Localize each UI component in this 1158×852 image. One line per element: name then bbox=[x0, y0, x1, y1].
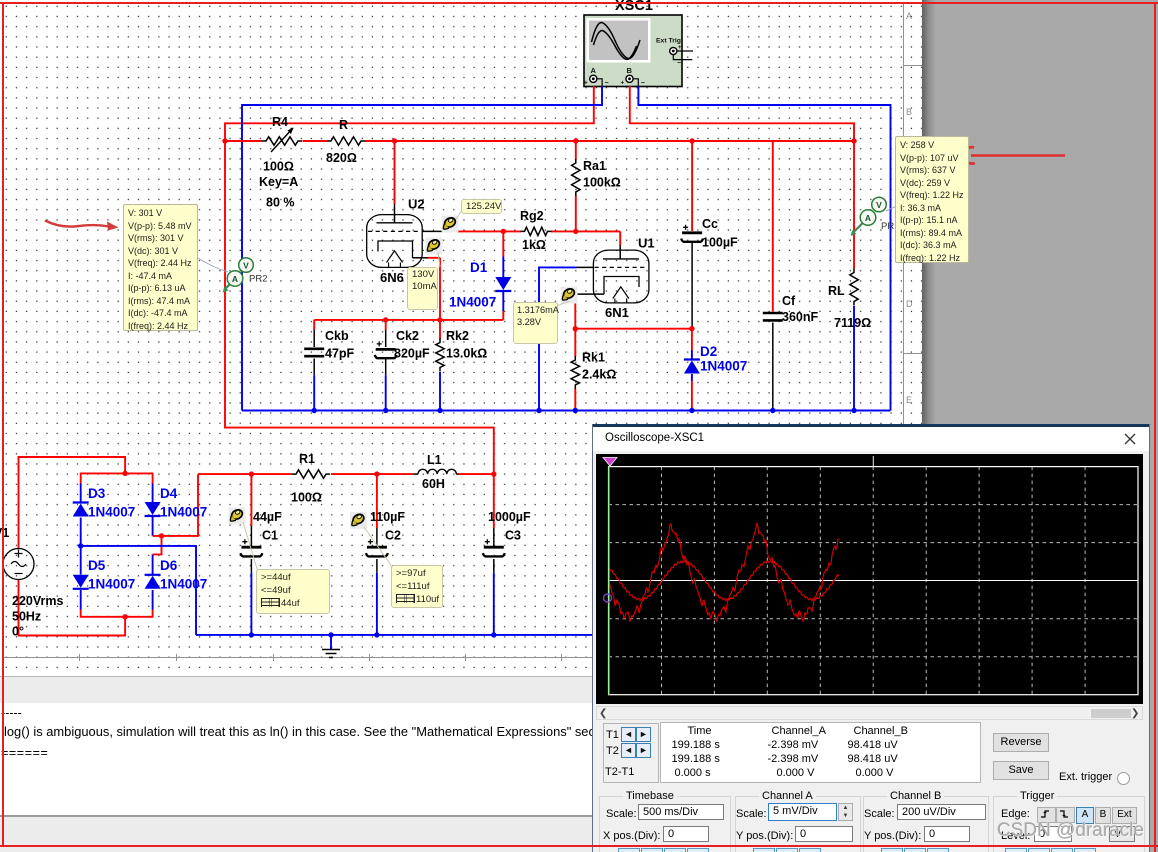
probe pin at U2 grid bbox=[442, 216, 459, 233]
resistor Ra1 100k bbox=[572, 159, 621, 196]
svg-text:1N4007: 1N4007 bbox=[160, 505, 207, 520]
leader line C2 box bbox=[364, 527, 393, 568]
wire: cathode bus y320 bbox=[314, 319, 503, 321]
tooltip U1 cathode 1.3176mA 3.28V bbox=[513, 302, 558, 344]
status bar grey bbox=[0, 815, 592, 852]
wire: D1 branch bbox=[502, 231, 504, 256]
border zone tick D/E bbox=[903, 353, 922, 354]
svg-text:L1: L1 bbox=[427, 453, 442, 467]
svg-text:47pF: 47pF bbox=[325, 347, 355, 361]
probe PR1 bbox=[851, 197, 900, 236]
capacitor Cf 360nF bbox=[763, 294, 819, 324]
inductor L1 60H bbox=[414, 453, 458, 491]
resistor Rk1 2.4k bbox=[571, 351, 616, 390]
svg-text:D6: D6 bbox=[160, 558, 178, 573]
svg-text:2.4kΩ: 2.4kΩ bbox=[582, 368, 616, 382]
leader line PR1 tooltip bbox=[886, 206, 897, 211]
zone letter E bbox=[906, 395, 912, 405]
svg-text:1N4007: 1N4007 bbox=[449, 295, 496, 310]
log panel white bbox=[0, 703, 592, 815]
wire: Ra1 leads bbox=[575, 141, 577, 231]
T1 T2 cursor controls bbox=[603, 723, 659, 783]
svg-text:1N4007: 1N4007 bbox=[88, 577, 135, 592]
probe pin at U1 cathode bbox=[561, 287, 578, 304]
diode D6 1N4007 bbox=[145, 558, 208, 592]
wire: RL bottom lead bbox=[853, 306, 855, 411]
svg-text:D4: D4 bbox=[160, 486, 178, 501]
svg-text:220Vrms: 220Vrms bbox=[12, 594, 63, 608]
svg-text:820Ω: 820Ω bbox=[326, 151, 357, 165]
svg-text:V: V bbox=[876, 200, 882, 210]
channel B controls bbox=[864, 808, 895, 820]
svg-text:Key=A: Key=A bbox=[259, 175, 298, 189]
red annotation frame top bbox=[0, 2, 1158, 4]
wire: D6 leads bbox=[152, 554, 154, 609]
capacitor Ckb 47pF bbox=[304, 320, 354, 411]
svg-text:Cf: Cf bbox=[782, 294, 796, 308]
wire: PSU V1 feed top bbox=[19, 457, 126, 549]
leader line C1 box bbox=[243, 522, 258, 572]
leader line 125.24V tooltip bbox=[456, 209, 463, 219]
wire: U2 plate feed bbox=[394, 141, 396, 204]
svg-text:U2: U2 bbox=[408, 197, 425, 212]
junction dots blue bbox=[78, 408, 857, 638]
svg-text:−: − bbox=[641, 80, 645, 87]
log equals bbox=[1, 746, 401, 760]
bottom grey scrollbar band bbox=[0, 676, 592, 704]
diode D1 1N4007 bbox=[449, 260, 511, 310]
wire: Cf leads bbox=[772, 141, 774, 312]
svg-text:Cc: Cc bbox=[702, 217, 718, 231]
svg-text:Rk2: Rk2 bbox=[446, 329, 469, 343]
resistor Rg2 1k bbox=[520, 209, 551, 252]
wire: cathode bus y328.7 bbox=[575, 328, 692, 330]
wire: scope A+ down-left-down to PSU rail loop bbox=[225, 86, 594, 474]
diode D2 1N4007 bbox=[684, 344, 747, 374]
capacitor Cc 100uF bbox=[681, 217, 738, 250]
svg-text:Ckb: Ckb bbox=[325, 329, 349, 343]
wire: PSU output rail y474 bbox=[198, 473, 494, 475]
CSDN watermark bbox=[997, 820, 1144, 842]
left green axis line bbox=[608, 467, 610, 695]
resistor R4 (potentiometer) bbox=[259, 115, 302, 210]
channel B trace bbox=[609, 561, 839, 601]
zone letter A bbox=[906, 11, 912, 21]
svg-text:D3: D3 bbox=[88, 486, 106, 501]
svg-text:50Hz: 50Hz bbox=[12, 610, 41, 624]
wire: scope B- blue stub to right frame bbox=[638, 86, 890, 411]
svg-text:1N4007: 1N4007 bbox=[88, 505, 135, 520]
Save button bbox=[993, 761, 1049, 780]
timebase controls bbox=[606, 808, 637, 820]
wire: bridge mid-left blue to bus bbox=[81, 546, 196, 635]
red annotation frame bottom bbox=[0, 845, 1158, 847]
wire: bridge top rail bbox=[81, 473, 153, 483]
wire: bottom blue bus of amplifier bbox=[242, 410, 891, 412]
wire: C3 leads bbox=[493, 474, 495, 528]
tooltip C2 range bbox=[391, 565, 443, 608]
red annotation frame right bbox=[1154, 2, 1156, 852]
wire: D5 leads bbox=[80, 546, 82, 610]
log message bbox=[4, 724, 754, 740]
oscilloscope window XSC1 dialog bbox=[592, 424, 1150, 852]
svg-text:Ra1: Ra1 bbox=[583, 159, 606, 173]
svg-text:1N4007: 1N4007 bbox=[160, 577, 207, 592]
svg-text:R1: R1 bbox=[299, 452, 315, 466]
zone letter B bbox=[906, 107, 912, 117]
svg-text:U1: U1 bbox=[638, 236, 655, 251]
wire: U2 grid wire to Rg2 and U1 bbox=[422, 230, 442, 232]
svg-text:0°: 0° bbox=[12, 625, 24, 639]
svg-text:+: + bbox=[678, 45, 682, 51]
svg-text:100µF: 100µF bbox=[702, 236, 738, 250]
svg-text:−: − bbox=[605, 80, 609, 87]
svg-text:7119Ω: 7119Ω bbox=[834, 316, 871, 330]
wire: top red bus y141 bbox=[225, 140, 854, 142]
border zone tick A/B bbox=[903, 65, 922, 66]
svg-text:360nF: 360nF bbox=[782, 310, 818, 324]
svg-text:6N6: 6N6 bbox=[380, 270, 404, 285]
wire: Cc leads bbox=[691, 141, 693, 231]
cursor circle marker bbox=[604, 594, 612, 602]
svg-text:A: A bbox=[591, 66, 597, 75]
svg-text:−: − bbox=[677, 60, 681, 67]
log dashes bbox=[1, 706, 401, 720]
svg-text:D1: D1 bbox=[470, 260, 488, 275]
capacitor C2 110uF bbox=[366, 510, 405, 556]
capacitor C3 1000uF bbox=[483, 510, 531, 556]
wire: U1 cathode bbox=[578, 293, 604, 295]
scope grid bbox=[609, 467, 1139, 695]
svg-text:+: + bbox=[621, 80, 625, 87]
svg-text:D5: D5 bbox=[88, 558, 106, 573]
svg-text:D2: D2 bbox=[700, 344, 717, 359]
svg-text:R: R bbox=[339, 118, 348, 132]
svg-text:100Ω: 100Ω bbox=[291, 491, 322, 505]
svg-text:V: V bbox=[243, 260, 249, 270]
svg-text:PR2: PR2 bbox=[249, 274, 267, 285]
svg-text:Ext Trig: Ext Trig bbox=[656, 38, 681, 45]
cursor 1 marker bbox=[603, 458, 617, 467]
Reverse button bbox=[993, 733, 1049, 752]
tooltip 125.24V bbox=[461, 199, 502, 214]
tooltip PR2 readout bbox=[123, 204, 198, 331]
svg-text:80 %: 80 % bbox=[266, 196, 295, 210]
probe pin at U2 cathode bbox=[426, 238, 443, 255]
svg-text:B: B bbox=[627, 66, 633, 75]
svg-text:R4: R4 bbox=[272, 115, 288, 129]
wire: D4 leads bbox=[152, 484, 154, 536]
wire: D2 leads bbox=[691, 329, 693, 350]
svg-text:+: + bbox=[584, 80, 588, 87]
wire: U1 grid blue bbox=[539, 267, 577, 410]
svg-text:1000µF: 1000µF bbox=[488, 510, 531, 524]
group boxes bbox=[599, 796, 731, 852]
capacitor Ck2 820uF bbox=[375, 320, 430, 411]
resistor R 820ohm bbox=[326, 118, 365, 165]
wire: bridge bottom rail bbox=[81, 610, 153, 617]
wire: PSU V1 return bottom bbox=[19, 580, 126, 636]
svg-text:6N1: 6N1 bbox=[605, 305, 629, 320]
oscilloscope instrument icon XSC1 bbox=[584, 15, 693, 87]
red annotation frame left bbox=[2, 2, 4, 847]
svg-text:A: A bbox=[232, 274, 238, 284]
wire: bottom blue ground bus bbox=[196, 634, 592, 636]
svg-text:44µF: 44µF bbox=[253, 510, 282, 524]
svg-text:1kΩ: 1kΩ bbox=[522, 238, 546, 252]
svg-text:Ck2: Ck2 bbox=[396, 329, 419, 343]
svg-text:110µF: 110µF bbox=[370, 510, 405, 524]
leader line U2 cathode box bbox=[438, 252, 440, 267]
wire: scope B+ down and right to RL bbox=[630, 86, 854, 269]
diode D4 1N4007 bbox=[145, 486, 208, 520]
AC source V1 bbox=[0, 526, 63, 639]
wire: C1 leads bbox=[250, 474, 252, 526]
svg-text:1N4007: 1N4007 bbox=[700, 359, 747, 374]
resistor Rk2 13k bbox=[436, 320, 488, 411]
svg-text:C1: C1 bbox=[262, 529, 278, 543]
zone letter D bbox=[906, 299, 913, 309]
sheet right border column line bbox=[903, 3, 904, 676]
svg-text:13.0kΩ: 13.0kΩ bbox=[446, 347, 487, 361]
svg-text:820µF: 820µF bbox=[394, 347, 430, 361]
svg-text:RL: RL bbox=[828, 284, 845, 298]
bottom border zone ticks bbox=[79, 654, 80, 661]
svg-text:60H: 60H bbox=[422, 477, 445, 491]
resistor RL 7119ohm bbox=[828, 269, 871, 331]
vacuum tube U1 6N1 bbox=[593, 236, 654, 321]
wire: scope A- blue stub bbox=[242, 86, 602, 411]
probe pin at C2 bbox=[350, 512, 367, 529]
red annotation arrow left bbox=[45, 221, 119, 231]
leader line PR2 tooltip bbox=[198, 258, 228, 272]
vacuum tube U2 6N6 bbox=[367, 197, 425, 286]
sheet bottom border line bbox=[3, 657, 922, 658]
wire: C2 leads bbox=[376, 474, 378, 528]
leader line U1 cathode box bbox=[556, 301, 570, 306]
top center tick bbox=[872, 456, 874, 467]
resistor R1 100ohm bbox=[291, 452, 330, 505]
wire: bridge mid-right jog to output bbox=[153, 474, 198, 554]
svg-text:Rg2: Rg2 bbox=[520, 209, 544, 223]
capacitor C1 44uF bbox=[240, 510, 282, 556]
junction dots red bbox=[122, 138, 856, 619]
svg-text:C3: C3 bbox=[505, 529, 521, 543]
wire: U2 cathode down bbox=[413, 257, 429, 259]
red annotation arrow right bbox=[964, 147, 1065, 163]
tooltip PR1 readout bbox=[895, 136, 969, 263]
diode D5 1N4007 bbox=[73, 558, 136, 592]
probe PR2 bbox=[223, 258, 268, 293]
channel A controls bbox=[736, 808, 767, 820]
trigger controls bbox=[1001, 808, 1030, 820]
probe pin at C1 bbox=[229, 508, 246, 525]
channel B flat trace (white) bbox=[609, 580, 1139, 582]
tooltip U2 cathode 130V 10mA bbox=[407, 267, 438, 310]
wire: Rk1 leads bbox=[574, 329, 576, 411]
diode D3 1N4007 bbox=[73, 486, 136, 520]
svg-text:100Ω: 100Ω bbox=[263, 160, 294, 174]
Ext trigger label bbox=[1059, 771, 1112, 783]
wire: D3 leads bbox=[80, 484, 82, 546]
cursor readout table bbox=[660, 722, 981, 783]
svg-text:A: A bbox=[865, 213, 871, 223]
ground symbol bbox=[322, 635, 340, 658]
partial bottom buttons bbox=[618, 848, 640, 852]
tooltip C1 range bbox=[256, 569, 330, 614]
svg-text:100kΩ: 100kΩ bbox=[583, 176, 621, 190]
svg-text:Rk1: Rk1 bbox=[582, 351, 605, 365]
svg-text:C2: C2 bbox=[385, 529, 401, 543]
channel A trace bbox=[609, 523, 839, 622]
